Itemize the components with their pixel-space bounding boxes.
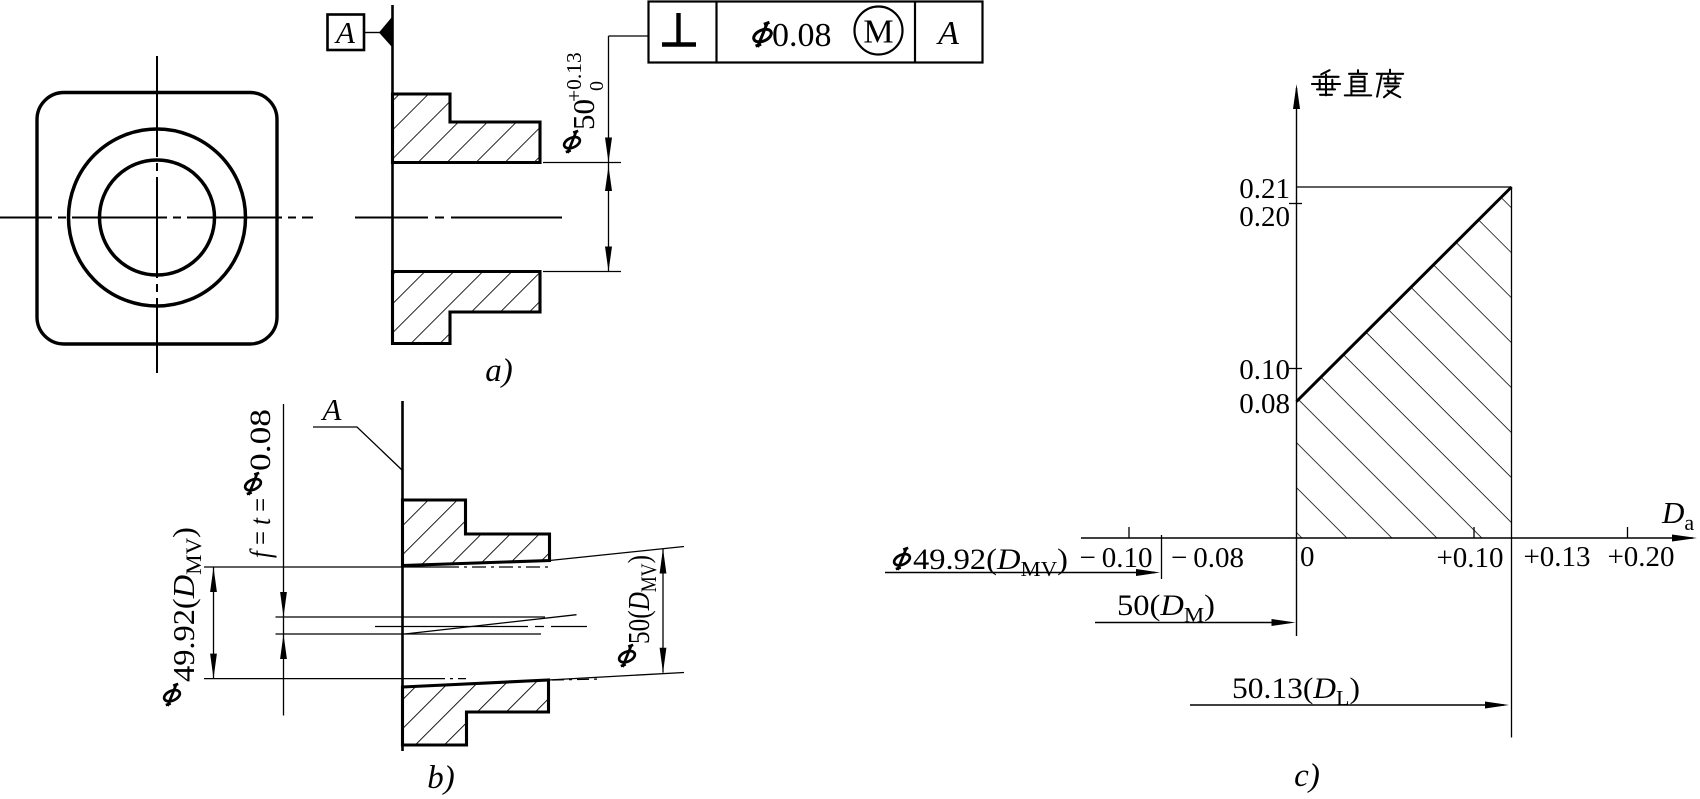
label phi49.92(DMV) bbox=[892, 543, 1068, 581]
square plate outline bbox=[37, 93, 277, 345]
frame divider 2 bbox=[914, 2, 916, 63]
dimension line phi49.92 bbox=[213, 567, 215, 679]
right boundary line bbox=[1511, 187, 1513, 738]
frame divider 1 bbox=[715, 2, 717, 63]
svg-text:0.20: 0.20 bbox=[1239, 201, 1290, 233]
vertical axis arrowhead bbox=[1293, 84, 1300, 109]
svg-text:A: A bbox=[334, 15, 356, 50]
section centerline bbox=[355, 217, 562, 219]
tolerance value phi0.08 bbox=[752, 22, 773, 47]
extension line upper left bbox=[204, 566, 445, 568]
svg-text:A: A bbox=[321, 392, 343, 427]
axis title chinese (perpendicularity) bbox=[1312, 70, 1403, 98]
x tick -0.10 bbox=[1128, 527, 1130, 538]
svg-text:0.08: 0.08 bbox=[1239, 388, 1290, 420]
arrowhead down bbox=[660, 648, 667, 673]
perpendicularity symbol bbox=[662, 13, 696, 45]
dash-dot continuation upper bbox=[445, 566, 549, 568]
dash-dot right of part bbox=[552, 679, 599, 680]
dimension text phi49.92(DMV) bbox=[162, 527, 206, 706]
dash-dot continuation lower bbox=[433, 678, 466, 680]
outer circle bbox=[69, 129, 246, 306]
arrowhead right bbox=[1485, 702, 1509, 709]
y tick 0.20 bbox=[1289, 203, 1302, 205]
tilted actual axis bbox=[405, 615, 577, 634]
svg-text:A: A bbox=[936, 15, 959, 52]
arrowhead up bbox=[660, 549, 667, 574]
svg-text:a): a) bbox=[485, 353, 513, 389]
char zhi bbox=[1345, 70, 1371, 95]
arrowhead up to zone bbox=[280, 634, 287, 659]
y tick 0.10 bbox=[1289, 368, 1302, 370]
arrowhead right bbox=[1272, 619, 1296, 626]
dimension arrowhead down bbox=[605, 247, 612, 272]
arrowhead right bbox=[1136, 569, 1160, 576]
datum plane edge line bbox=[391, 5, 394, 344]
extension line bore bottom bbox=[543, 271, 621, 273]
char chui bbox=[1312, 70, 1340, 95]
svg-text:f = t =: f = t = bbox=[244, 498, 277, 558]
datum plane edge line b bbox=[401, 401, 404, 751]
arrow line 50.13(DL) bbox=[1190, 704, 1504, 706]
x tick +0.20 bbox=[1627, 527, 1629, 538]
mating envelope upper line bbox=[550, 547, 685, 561]
leader arrowhead down bbox=[605, 138, 612, 163]
dimension text f=t=phi0.08 bbox=[243, 409, 277, 558]
arrow line 50(DM) bbox=[1095, 622, 1290, 624]
tolerance zone upper line bbox=[276, 616, 546, 618]
datum filled triangle bbox=[379, 18, 392, 47]
svg-text:− 0.10: − 0.10 bbox=[1080, 542, 1153, 574]
top line 0.21 bbox=[1297, 186, 1512, 188]
dimension text phi50(DMV) bbox=[617, 555, 661, 667]
dimension text phi50 +0.13/0 bbox=[562, 52, 608, 153]
mating envelope lower line bbox=[549, 673, 685, 681]
svg-text:0.08: 0.08 bbox=[244, 409, 277, 471]
arrow line phi49.92 bbox=[885, 572, 1155, 574]
svg-text:0.10: 0.10 bbox=[1239, 354, 1290, 386]
horizontal centerline bbox=[0, 217, 313, 219]
svg-text:− 0.08: − 0.08 bbox=[1171, 542, 1244, 574]
datum leader line bbox=[364, 32, 380, 34]
extension line bore top bbox=[543, 162, 621, 164]
dimension line phi50(DMV) bbox=[662, 549, 664, 673]
x tick +0.10 bbox=[1473, 527, 1475, 538]
limit diagonal (thick) bbox=[1297, 187, 1512, 402]
horizontal axis bbox=[1081, 537, 1693, 539]
leader to feature control frame bbox=[609, 35, 650, 37]
dimension / leader vertical line bbox=[608, 36, 610, 272]
svg-text:0.08: 0.08 bbox=[772, 17, 832, 54]
inner circle (bore) bbox=[100, 160, 215, 275]
horizontal axis arrowhead bbox=[1672, 535, 1697, 542]
svg-text:M: M bbox=[863, 14, 893, 51]
char du bbox=[1377, 70, 1403, 98]
datum A box bbox=[328, 15, 365, 51]
svg-text:+0.10: +0.10 bbox=[1436, 542, 1503, 574]
svg-text:c): c) bbox=[1294, 758, 1320, 794]
separator line -0.08 bbox=[1161, 535, 1163, 579]
svg-text:b): b) bbox=[427, 760, 455, 796]
svg-text:0: 0 bbox=[586, 81, 608, 91]
extension line lower left bbox=[204, 678, 433, 680]
datum leader polyline bbox=[313, 427, 402, 470]
upper section cut b (hatched) bbox=[403, 500, 550, 566]
upper section cut (hatched) bbox=[393, 94, 541, 163]
svg-text:0: 0 bbox=[1300, 541, 1315, 573]
dimension arrowhead up bbox=[605, 166, 612, 191]
arrowhead up bbox=[210, 567, 217, 592]
svg-text:+0.13: +0.13 bbox=[562, 52, 586, 102]
modifier circle M bbox=[855, 7, 903, 55]
svg-text:+0.20: +0.20 bbox=[1607, 541, 1674, 573]
tolerance zone lower line bbox=[276, 633, 542, 635]
svg-text:50: 50 bbox=[566, 99, 601, 130]
arrowhead down to zone bbox=[280, 592, 287, 617]
lower section cut b (hatched) bbox=[403, 680, 549, 745]
arrowhead down bbox=[210, 654, 217, 679]
frame outline bbox=[649, 2, 983, 63]
vertical centerline bbox=[156, 56, 158, 373]
nominal axis dash-dot bbox=[375, 626, 587, 628]
hatched region bbox=[1297, 187, 1512, 538]
lower section cut (hatched) bbox=[393, 272, 541, 344]
vertical axis bbox=[1296, 88, 1298, 636]
f t dimension vertical line bbox=[283, 404, 285, 716]
svg-text:+0.13: +0.13 bbox=[1523, 541, 1590, 573]
